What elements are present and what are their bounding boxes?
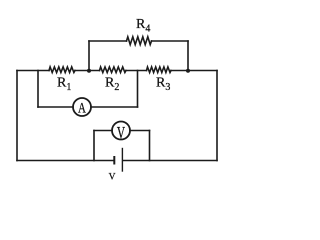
node junction of R4 branch and main line (right) <box>186 69 190 73</box>
wire R4 branch left leg <box>88 41 90 71</box>
node junction of R4 branch and main line (left) <box>87 69 91 73</box>
svg-text:V: V <box>109 173 116 183</box>
wire between R1 and R2 <box>75 70 100 72</box>
wire bottom right (from battery) <box>123 160 217 162</box>
svg-text:V: V <box>117 124 126 143</box>
wire ammeter branch left leg <box>37 71 39 108</box>
wire left vertical of outer loop <box>16 71 18 161</box>
wire R4 branch top left <box>89 40 127 42</box>
resistor R4 <box>127 37 152 45</box>
battery positive plate (long) <box>121 149 123 172</box>
wire voltmeter branch right horizontal <box>130 130 150 132</box>
resistor R3 <box>147 67 172 73</box>
battery negative plate (short) <box>113 157 115 164</box>
ammeter A body <box>73 98 91 116</box>
wire ammeter branch right leg <box>137 71 139 108</box>
wire ammeter branch left horizontal <box>38 106 73 108</box>
voltmeter V body <box>112 122 130 140</box>
wire main line left segment <box>17 70 49 72</box>
wire R4 branch top right <box>152 40 189 42</box>
wire voltmeter branch left leg <box>93 131 95 161</box>
wire bottom left (to battery) <box>17 160 114 162</box>
wire R4 branch right leg <box>187 41 189 71</box>
svg-text:A: A <box>78 99 86 116</box>
wire voltmeter branch right leg <box>149 131 151 161</box>
resistor R1 <box>49 67 75 73</box>
wire between R2 and R3 <box>126 70 147 72</box>
wire main line right segment <box>171 70 217 72</box>
wire voltmeter branch left horizontal <box>94 130 112 132</box>
resistor R2 <box>100 67 127 73</box>
wire right vertical of outer loop <box>216 71 218 161</box>
wire ammeter branch right horizontal <box>91 106 138 108</box>
